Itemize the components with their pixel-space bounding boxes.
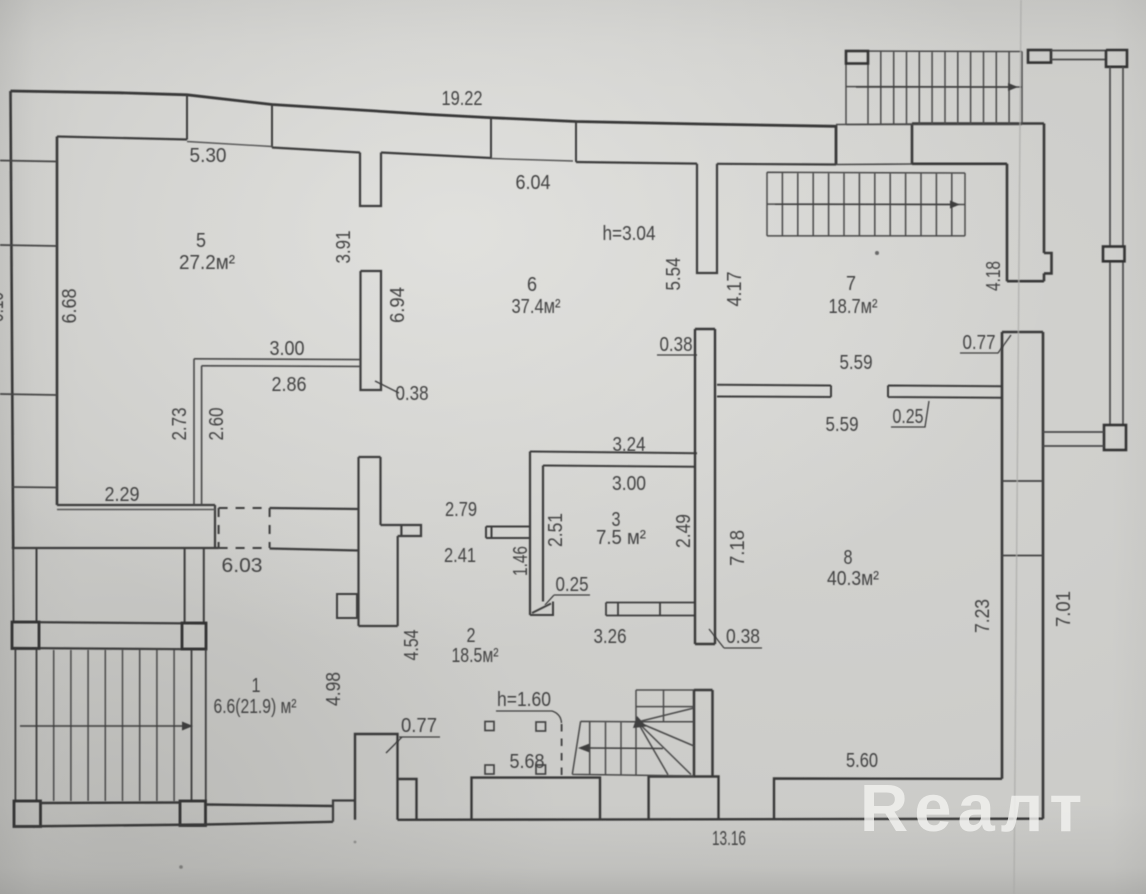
wire: winder descent arrow xyxy=(589,747,663,750)
leader 0.38 pier xyxy=(375,381,399,393)
svg-text:h=3.04: h=3.04 xyxy=(603,223,656,245)
wall: left exterior wall xyxy=(11,91,58,548)
wall: room 4 left thin wall xyxy=(194,359,202,505)
svg-text:2.73: 2.73 xyxy=(169,408,191,441)
wall pier between rooms 6 and 7 (from top wall) xyxy=(697,164,717,273)
node: stray ink dots xyxy=(875,251,879,255)
underline+leader 0.77 right xyxy=(960,335,1011,353)
wall: band solid segment right of dashes xyxy=(270,508,359,551)
wall: 0.77 tall block at hall/porch xyxy=(355,734,417,820)
node: porch pier square top-right xyxy=(182,623,206,649)
wall: balcony bottom thin wall xyxy=(1043,432,1104,446)
wire: porch stair direction arrow xyxy=(20,725,182,727)
svg-text:3.24: 3.24 xyxy=(613,434,646,456)
underline 0.38 central xyxy=(657,354,697,356)
wire: top wall window sill lines (5.30 and 6.04 windows) xyxy=(187,142,573,162)
svg-text:6.04: 6.04 xyxy=(516,172,551,194)
wall: right exterior wall xyxy=(1002,332,1043,819)
stairs: winder staircase straight flight xyxy=(572,690,694,776)
svg-text:7.23: 7.23 xyxy=(972,599,994,633)
svg-text:2.79: 2.79 xyxy=(445,499,477,521)
stairs: winder fan lines xyxy=(638,708,695,775)
stairs: upper staircase top right xyxy=(846,51,1022,125)
node: post square 2 xyxy=(536,722,546,731)
svg-text:4.54: 4.54 xyxy=(401,630,423,661)
wall: room 3 left wall xyxy=(530,452,543,616)
svg-text:1: 1 xyxy=(252,675,261,697)
node: post square 1 xyxy=(485,722,494,731)
svg-text:5.30: 5.30 xyxy=(190,145,227,167)
svg-text:Rеaлт: Rеaлт xyxy=(860,771,1088,846)
wall: bottom band block 4 joining right wall xyxy=(774,779,1002,819)
wall: central wall between hall and room 8 (0.38) xyxy=(695,329,715,644)
underline+leader 0.25 right xyxy=(891,401,929,427)
node: balcony bottom-right pier xyxy=(1104,425,1126,450)
svg-text:6: 6 xyxy=(527,274,537,296)
svg-text:4.98: 4.98 xyxy=(323,672,345,706)
wire: exterior top wall outer line xyxy=(11,91,837,165)
wall: bottom step block small (left of 0.77 block) xyxy=(333,801,355,822)
wall: bottom band block 2 xyxy=(472,778,601,820)
underline+leader 0.25 room3 xyxy=(545,595,590,605)
wall: porch top band xyxy=(14,622,207,649)
wall: stub from central wall to door (5.59) xyxy=(717,385,831,397)
svg-text:27.2м²: 27.2м² xyxy=(179,252,235,274)
wall pier between rooms 5 and 6 (upper, from top wall) xyxy=(360,153,381,207)
wire: porch stair treads xyxy=(54,650,174,801)
stairs: winder grid top xyxy=(636,690,694,722)
underline+leader 0.38 bottom xyxy=(709,629,762,648)
svg-text:3.00: 3.00 xyxy=(270,338,305,360)
node: balcony right mid pier xyxy=(1103,247,1125,262)
underline+leader 0.77 bottom xyxy=(386,737,440,753)
svg-text:3.00: 3.00 xyxy=(612,473,646,495)
svg-text:19.22: 19.22 xyxy=(442,88,483,110)
svg-text:7: 7 xyxy=(846,273,856,295)
node: balcony top-right corner pier xyxy=(1106,50,1127,67)
svg-text:2.51: 2.51 xyxy=(545,513,567,547)
svg-text:5.59: 5.59 xyxy=(826,414,859,436)
wall: bottom band block 3 xyxy=(649,777,719,820)
underline+leader h=1.60 xyxy=(496,711,562,723)
node: room 3 window bar (3.26) xyxy=(606,603,695,616)
wall: winder stair right wall xyxy=(694,690,713,777)
wall: porch stair sides xyxy=(15,649,205,802)
svg-text:1.46: 1.46 xyxy=(510,546,532,576)
wire: dashed h=1.60 boundary line xyxy=(561,724,563,775)
node: porch pier square bottom-right xyxy=(180,801,206,826)
wall pier between rooms 5 and 6 (lower) xyxy=(361,271,382,390)
svg-text:5.54: 5.54 xyxy=(663,258,685,291)
svg-text:3.91: 3.91 xyxy=(333,231,355,264)
svg-text:6.6(21.9) м²: 6.6(21.9) м² xyxy=(214,696,297,718)
node: balcony top-left pier xyxy=(1028,50,1051,63)
node: porch pier square bottom-left xyxy=(14,801,41,827)
svg-text:2.49: 2.49 xyxy=(673,514,695,548)
wall: room 4 top thin wall xyxy=(194,359,361,367)
svg-text:2.41: 2.41 xyxy=(444,545,476,567)
wall: band under room 4 (2.29 wall) xyxy=(12,505,219,548)
svg-text:0.77: 0.77 xyxy=(401,715,437,737)
node: chimney box on hall column xyxy=(337,594,357,618)
svg-text:13.16: 13.16 xyxy=(712,828,746,850)
node: porch pier square top-left xyxy=(12,622,39,649)
svg-text:4.17: 4.17 xyxy=(724,272,746,307)
svg-text:18.5м²: 18.5м² xyxy=(452,645,499,667)
node: right wall ticks xyxy=(1002,481,1043,556)
svg-text:2.86: 2.86 xyxy=(272,374,307,396)
wall: room 3 bottom corner block with hatch xyxy=(530,602,553,616)
wire: top wall inner lines xyxy=(57,137,836,165)
svg-text:7.18: 7.18 xyxy=(727,530,749,566)
svg-text:h=1.60: h=1.60 xyxy=(497,689,551,711)
svg-text:5: 5 xyxy=(196,230,206,252)
svg-text:2.29: 2.29 xyxy=(105,484,140,506)
wire: window band below upper stairs xyxy=(836,124,912,165)
wire: upper staircase arrow xyxy=(856,86,1008,88)
svg-text:7.01: 7.01 xyxy=(1053,591,1075,627)
svg-text:5.68: 5.68 xyxy=(510,751,545,773)
node: window jambs in top wall xyxy=(187,95,576,163)
svg-text:6.94: 6.94 xyxy=(387,287,409,323)
wire: bottom exterior outer line xyxy=(14,803,1043,827)
svg-text:18.7м²: 18.7м² xyxy=(829,296,878,318)
svg-text:2: 2 xyxy=(467,625,476,647)
wire: paper crease line xyxy=(1014,0,1021,894)
svg-text:40.3м²: 40.3м² xyxy=(827,568,879,590)
node: post square 3 xyxy=(485,765,494,774)
svg-text:6.68: 6.68 xyxy=(59,289,81,324)
svg-text:0.25: 0.25 xyxy=(893,406,924,428)
svg-text:0.38: 0.38 xyxy=(660,334,693,356)
wire: dashed doorway opening in band xyxy=(219,508,270,548)
wall: hall column below band xyxy=(359,457,422,626)
stairs: room 7 staircase xyxy=(767,172,965,236)
svg-text:8: 8 xyxy=(844,547,853,569)
wall: 2.79 stub with end cap xyxy=(486,527,530,539)
svg-text:0.38: 0.38 xyxy=(396,383,429,405)
node: post square 4 xyxy=(536,765,546,774)
svg-text:0.77: 0.77 xyxy=(963,332,996,354)
svg-text:6.03: 6.03 xyxy=(222,555,263,577)
node: left wall window ticks xyxy=(0,161,57,488)
svg-text:7.5 м²: 7.5 м² xyxy=(596,527,646,549)
wall: porch side columns xyxy=(13,548,204,622)
svg-text:4.18: 4.18 xyxy=(983,261,1005,291)
wall: balcony top thin wall xyxy=(1051,51,1106,60)
wire: room 7 staircase arrow xyxy=(775,203,950,205)
wall: stub from right wall to door (0.25) xyxy=(888,386,1002,398)
svg-text:5.60: 5.60 xyxy=(846,750,878,772)
svg-text:2.60: 2.60 xyxy=(206,408,228,441)
svg-text:0.38: 0.38 xyxy=(726,626,760,648)
svg-text:37.4м²: 37.4м² xyxy=(512,296,561,318)
svg-text:3.26: 3.26 xyxy=(594,626,627,648)
wall: balcony right thin wall xyxy=(1110,67,1123,425)
wall: top-right L-shaped exterior wall xyxy=(912,124,1052,282)
stairs: winder pivot arrow xyxy=(633,716,647,728)
wall: room 3 top wall to central wall xyxy=(530,452,697,467)
node: upper staircase pier square xyxy=(846,51,868,64)
svg-text:0.10: 0.10 xyxy=(0,292,8,322)
svg-text:0.25: 0.25 xyxy=(556,574,589,596)
svg-text:5.59: 5.59 xyxy=(840,352,873,374)
